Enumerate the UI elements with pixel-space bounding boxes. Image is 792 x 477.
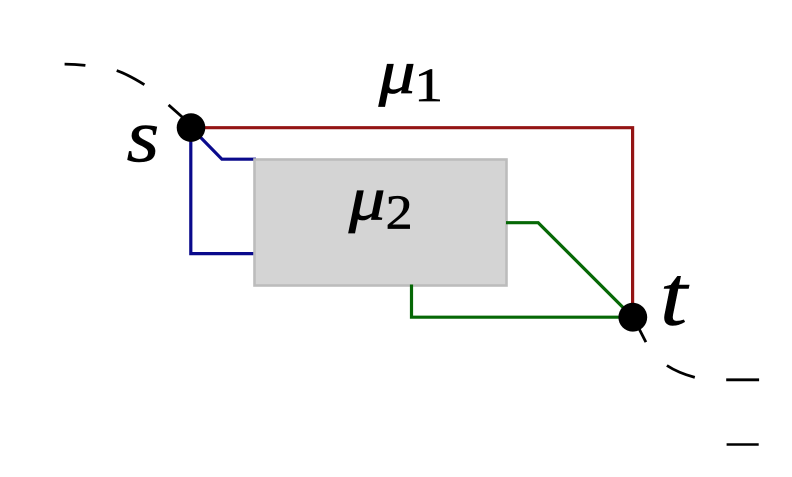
box mu2 (gray region): [255, 160, 507, 286]
svg-text:1: 1: [414, 60, 443, 113]
node t: [618, 303, 647, 332]
wire dashed walk into s: dash 2: [117, 71, 145, 85]
svg-text:μ: μ: [378, 38, 416, 107]
svg-text:μ: μ: [348, 164, 386, 233]
svg-text:s: s: [127, 96, 160, 179]
label mu1: [378, 38, 443, 112]
wire mu1 path (dark red) from s right then down to t: [191, 128, 633, 318]
wire dashed walk into s: dash 1: [65, 64, 86, 65]
label mu2: [348, 164, 413, 239]
wire dashed walk out of t: dash 3: [726, 378, 759, 381]
wire green upper segment from box right edge to t: [506, 223, 633, 318]
svg-text:2: 2: [386, 186, 413, 240]
wire dashed walk out of t: stub: [639, 329, 646, 343]
svg-text:t: t: [660, 248, 690, 344]
wire dashed walk into s: dash 3 stub: [169, 105, 185, 120]
wire dashed walk out of t: dash 4: [727, 443, 759, 446]
wire blue upper segment from s to box: [191, 128, 256, 160]
wire green lower segment from box bottom to t: [412, 285, 633, 318]
wire dashed walk out of t: dash 2: [667, 366, 695, 378]
node s: [177, 113, 206, 142]
wire blue lower segment from s down then right to box: [191, 128, 256, 254]
